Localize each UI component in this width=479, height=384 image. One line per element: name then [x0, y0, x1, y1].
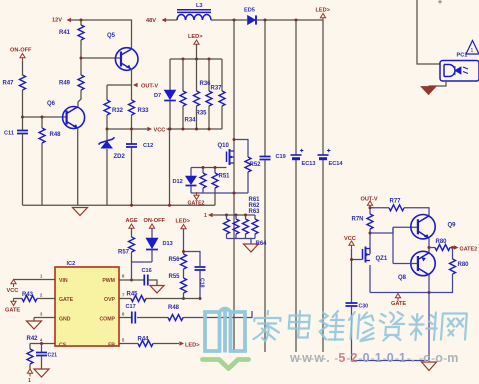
svg-text:R63: R63: [249, 209, 261, 215]
wire pin1: [14, 279, 56, 281]
resistor R51a: [202, 168, 204, 174]
svg-text:R35: R35: [196, 111, 208, 117]
wire qz1 gate: [352, 259, 363, 261]
svg-text:w: w: [313, 351, 324, 365]
svg-text:R48: R48: [50, 132, 62, 138]
svg-text:GATE: GATE: [391, 301, 406, 307]
svg-text:5: 5: [338, 351, 345, 365]
svg-text:w: w: [301, 351, 312, 365]
wire VCC rail: [107, 128, 222, 130]
wire riser vcc-gnd: [169, 129, 171, 205]
wire cluster to ground rail: [214, 193, 216, 205]
svg-text:GATE: GATE: [5, 308, 20, 314]
svg-text:Q10: Q10: [218, 143, 230, 149]
svg-text:c: c: [423, 351, 430, 365]
wire ground rail: [23, 204, 216, 206]
svg-text:R56: R56: [169, 257, 181, 263]
wire gate q10: [191, 167, 227, 169]
svg-text:o: o: [435, 351, 443, 365]
svg-text:D12: D12: [173, 179, 183, 185]
svg-text:GND: GND: [59, 317, 71, 323]
wire c18 branch: [184, 252, 201, 267]
wire q9 base: [393, 226, 418, 228]
wire pc1 gnd: [429, 81, 447, 86]
wire rail x265: [264, 20, 266, 156]
op-amp IC2 box: [55, 267, 119, 346]
svg-text:QZ1: QZ1: [376, 256, 388, 262]
svg-text:PWM: PWM: [102, 278, 115, 284]
svg-text:R80: R80: [458, 262, 470, 268]
svg-text:D13: D13: [163, 241, 173, 247]
wire pin6: [119, 317, 132, 319]
svg-text:C11: C11: [4, 131, 14, 137]
wire 48V to L3: [166, 19, 177, 21]
svg-text:R32: R32: [112, 108, 124, 114]
watermark char liao: [408, 313, 437, 341]
svg-text:Q9: Q9: [448, 223, 457, 229]
svg-text:FB: FB: [108, 343, 115, 349]
junction gate2: [451, 246, 454, 249]
wire Q6 emitter down: [77, 128, 79, 205]
ground main: [73, 208, 88, 216]
node GATE2 stub: [194, 195, 199, 199]
junction c18 tap: [182, 250, 185, 253]
junction emitters: [428, 246, 431, 249]
wire C11 to ground rail: [22, 134, 24, 205]
wire pin3: [34, 317, 55, 319]
capacitor C18: [195, 267, 206, 270]
wire pc1 feed: [417, 0, 440, 64]
junction VCC/R32: [106, 128, 109, 131]
svg-text:2: 2: [351, 351, 358, 365]
junction q8c: [428, 291, 431, 294]
wire vcc down: [351, 249, 353, 303]
wire q10 top loop: [234, 140, 248, 158]
junction base feed: [369, 232, 372, 235]
svg-text:VCC: VCC: [154, 128, 166, 134]
svg-text:L3: L3: [196, 3, 203, 9]
svg-text:1: 1: [204, 213, 207, 219]
wire driver bottom rail: [370, 292, 429, 294]
junction gate1: [202, 166, 205, 169]
wire q9 emitter: [428, 238, 430, 252]
svg-text:GATE2: GATE2: [188, 201, 205, 207]
node 1 cs: [27, 369, 32, 373]
junction rail c: [295, 19, 298, 22]
svg-text:C12: C12: [143, 143, 153, 149]
wire led chain top: [183, 229, 185, 254]
wire rail x234: [233, 20, 235, 352]
svg-text:LED>: LED>: [188, 34, 203, 40]
wire c16 gnd: [149, 280, 158, 286]
svg-text:R37: R37: [211, 86, 223, 92]
wire L3 to ED5: [211, 19, 247, 21]
wire bank bottom: [227, 238, 256, 240]
svg-text:Q8: Q8: [398, 275, 407, 281]
ground bank: [250, 239, 252, 245]
ground c16: [150, 286, 164, 294]
wire Q6 base: [23, 116, 67, 118]
svg-text:COMP: COMP: [99, 317, 115, 323]
svg-text:R7N: R7N: [352, 217, 364, 223]
junction ovp row: [182, 297, 185, 300]
watermark char jia: [253, 311, 281, 341]
junction rail q10 bottom: [233, 192, 236, 195]
junction pin8: [130, 279, 133, 282]
watermark book icon: [205, 308, 245, 353]
svg-text:R41: R41: [59, 30, 71, 36]
svg-text:C30: C30: [359, 304, 369, 310]
svg-text:.: .: [411, 351, 414, 365]
svg-text:1: 1: [471, 48, 474, 54]
junction vcc riser: [168, 128, 171, 131]
wire q8 base: [393, 263, 418, 265]
watermark char zi: [378, 312, 404, 341]
wire Q5 emitter to OUT-V: [131, 69, 133, 85]
junction bottom cluster: [169, 128, 172, 131]
svg-text:R47: R47: [3, 81, 15, 87]
svg-text:R49: R49: [59, 81, 71, 87]
junction 12V/R41: [80, 19, 83, 22]
junction base node: [21, 116, 24, 119]
svg-text:C16: C16: [142, 268, 152, 274]
svg-text:LED>: LED>: [176, 219, 191, 225]
wire c18 down: [199, 271, 201, 299]
tiny plus mark: [438, 0, 442, 4]
node LED fb: [179, 341, 184, 346]
junction top d7: [182, 58, 185, 61]
svg-text:C21: C21: [48, 353, 58, 359]
svg-text:GATE2: GATE2: [460, 247, 478, 253]
ground ic: [33, 318, 35, 322]
wire LED stub: [196, 45, 198, 60]
svg-text:EC13: EC13: [302, 161, 316, 167]
wire rail x323: [322, 20, 324, 155]
svg-text:Q6: Q6: [47, 101, 56, 107]
wire qz1 drain-source: [369, 249, 371, 255]
svg-text:ON-OFF: ON-OFF: [10, 48, 32, 54]
svg-text:LED>: LED>: [316, 8, 331, 14]
svg-text:R57: R57: [118, 250, 130, 256]
ground pc1: [421, 87, 436, 95]
svg-text:D7: D7: [154, 93, 161, 99]
wire q10 bottom loop: [191, 192, 248, 194]
wire outv down: [369, 208, 371, 214]
svg-text:Q5: Q5: [107, 33, 116, 39]
junction net1: [225, 214, 228, 217]
wire pin5: [119, 343, 138, 345]
node GATE ic: [11, 301, 16, 305]
junction VCC/C12: [130, 128, 133, 131]
junction outv: [369, 206, 372, 209]
wire 12V rail: [71, 20, 132, 49]
junction gnd c12: [130, 204, 133, 207]
wire comp mid: [137, 317, 168, 319]
junction c21: [40, 342, 43, 345]
ground c21: [34, 369, 49, 377]
svg-text:R48: R48: [168, 305, 180, 311]
svg-text:1: 1: [28, 378, 31, 384]
svg-text:.: .: [326, 351, 329, 365]
wire OUT-V row: [107, 84, 132, 86]
watermark char xiu: [347, 312, 375, 341]
svg-text:OVP: OVP: [104, 297, 115, 303]
svg-text:VCC: VCC: [344, 236, 356, 242]
junction R48 top: [41, 116, 44, 119]
svg-text:1: 1: [375, 351, 382, 365]
svg-text:R55: R55: [169, 274, 181, 280]
wire join to pin8: [132, 262, 153, 280]
svg-text:12V: 12V: [52, 18, 62, 24]
symbol triangle: [466, 41, 479, 55]
svg-text:1: 1: [399, 351, 406, 365]
svg-text:IC2: IC2: [67, 261, 76, 267]
wire rail x296: [295, 20, 297, 155]
node OUT-V: [133, 83, 138, 88]
svg-text:EC14: EC14: [329, 161, 344, 167]
junction R41/base: [80, 57, 83, 60]
svg-text:R42: R42: [27, 336, 39, 342]
wire q8 collector: [428, 275, 430, 293]
opto PC1 led: [444, 65, 455, 77]
node GATE2 right: [454, 245, 459, 250]
watermark url: [289, 351, 458, 365]
svg-text:0: 0: [363, 351, 370, 365]
svg-text:m: m: [447, 351, 458, 365]
svg-text:CS: CS: [59, 343, 67, 349]
svg-text:ON-OFF: ON-OFF: [144, 218, 166, 224]
wire net1: [213, 214, 256, 216]
wire ground drop: [428, 293, 430, 363]
svg-text:R51: R51: [219, 174, 231, 180]
svg-text:0: 0: [387, 351, 394, 365]
node VCC mid: [151, 125, 167, 133]
svg-text:OUT-V: OUT-V: [141, 84, 158, 90]
watermark char dian: [288, 311, 310, 338]
svg-text:w: w: [289, 351, 300, 365]
junction rail a: [233, 19, 236, 22]
wire cluster top rail: [170, 58, 222, 60]
svg-text:48V: 48V: [146, 18, 156, 24]
ground driver: [422, 362, 437, 371]
wire Q5 base: [81, 57, 120, 59]
svg-text:GATE: GATE: [59, 297, 74, 303]
svg-text:C19: C19: [276, 154, 286, 160]
svg-text:VCC: VCC: [7, 288, 19, 294]
svg-text:ZD2: ZD2: [114, 154, 126, 160]
junction qz1 gate: [350, 258, 353, 261]
junction gnd riser: [168, 204, 171, 207]
node GATE right: [395, 294, 400, 298]
wire pin4: [30, 343, 55, 345]
wire c30 to ground: [352, 307, 430, 361]
svg-text:VIN: VIN: [59, 278, 68, 284]
watermark char wang: [441, 314, 467, 340]
watermark char wei: [319, 311, 345, 340]
wire base feed: [370, 227, 393, 233]
svg-text:AGE: AGE: [126, 218, 138, 224]
junction rail q10 top: [233, 138, 236, 141]
svg-text:LED>: LED>: [185, 343, 200, 349]
wire pin8: [119, 279, 144, 281]
svg-text:R34: R34: [185, 118, 197, 124]
junction rail b: [264, 19, 267, 22]
node VCC ic: [11, 280, 16, 284]
svg-text:C17: C17: [126, 304, 136, 310]
svg-text:ED5: ED5: [244, 8, 255, 14]
watermark green swoosh: [203, 360, 249, 369]
wire ON-OFF down: [22, 61, 24, 75]
wire top rail right: [257, 19, 324, 21]
svg-text:R33: R33: [138, 108, 150, 114]
